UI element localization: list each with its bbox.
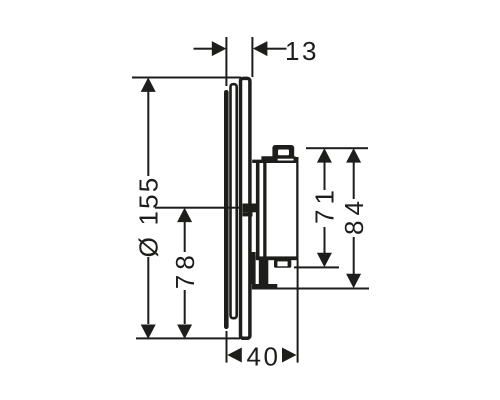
dim 40: right extension line — [297, 260, 299, 363]
dim 40: right-pointing arrow — [282, 348, 297, 363]
bottom boss (dark with white window) — [274, 260, 291, 268]
top cap boss (dark with white window) — [272, 145, 294, 159]
junction hub upper (solid) — [243, 204, 257, 213]
bracket foot — [252, 284, 277, 290]
dim 13: right dimension line — [266, 48, 287, 50]
dim 71: upper dimension line — [324, 162, 326, 190]
dim 71: lower dimension line — [324, 227, 326, 253]
svg-text:84: 84 — [339, 196, 369, 235]
dim 71/84: top extension line — [306, 147, 368, 149]
top cap white window — [278, 150, 289, 156]
dim Ø155: top extension line — [132, 77, 241, 79]
wall flange bar (left solid bar of plate) — [224, 90, 229, 329]
dim 13: left dimension line — [194, 48, 214, 50]
dim 13: extension line 1 — [225, 37, 227, 86]
dim 78: up arrow — [177, 208, 192, 223]
dim Ø155: up arrow — [141, 77, 156, 92]
dim 13: extension line 2 — [251, 37, 253, 77]
dim 84: lower dimension line — [353, 237, 355, 274]
svg-text:13: 13 — [285, 36, 319, 66]
junction hub lower step (solid) — [243, 212, 253, 216]
dim 78: top extension line — [155, 207, 240, 209]
dim 13: right-pointing arrow — [212, 41, 227, 56]
front escutcheon plate (outline) — [241, 78, 250, 338]
dim 71: down arrow — [317, 253, 332, 268]
dim 84: up arrow — [346, 148, 361, 163]
dim 84: upper dimension line — [353, 162, 355, 199]
body top band white slit — [278, 159, 294, 161]
svg-text:Ø 155: Ø 155 — [134, 176, 164, 258]
dim Ø155: down arrow — [141, 325, 156, 340]
valve body bottom band — [256, 256, 299, 260]
dim 84: bottom extension line — [275, 288, 369, 290]
dim Ø155/78: bottom extension line — [136, 337, 240, 339]
valve body right edge — [296, 157, 298, 260]
sleeve left edge (vertical line) — [256, 163, 260, 258]
lower connector fill between plate and sleeve — [251, 252, 255, 284]
dim Ø155: lower dimension line — [147, 257, 149, 324]
dim 78: down arrow — [177, 325, 192, 340]
middle plate layer (outline) — [231, 84, 237, 318]
dim 71: up arrow — [317, 148, 332, 163]
dim 71: bottom extension line — [294, 266, 339, 268]
bottom boss white window — [277, 261, 287, 266]
dim 13: left-pointing arrow — [253, 41, 268, 56]
dim 40: left extension line — [226, 331, 228, 363]
mounting bracket vertical bar — [259, 257, 269, 290]
body top band — [252, 156, 298, 163]
svg-text:78: 78 — [170, 250, 200, 289]
dim 40: left-pointing arrow — [227, 348, 242, 363]
dim Ø155: upper dimension line — [147, 91, 149, 176]
svg-text:71: 71 — [310, 185, 340, 224]
dim 78: upper dimension line — [184, 221, 186, 252]
dim 78: lower dimension line — [184, 290, 186, 324]
svg-text:40: 40 — [247, 341, 281, 371]
valve body left edge — [263, 157, 266, 258]
dim 84: down arrow — [346, 274, 361, 289]
